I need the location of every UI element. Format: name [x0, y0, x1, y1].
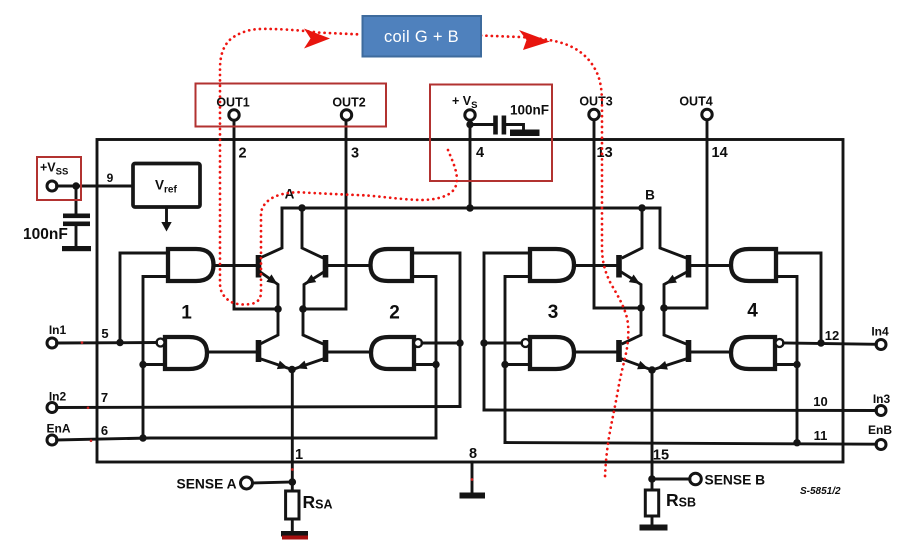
AND gate 1 upper	[168, 249, 214, 281]
wire gate4 upper top input to In4	[776, 253, 821, 343]
inverting bubble gate 4 lower	[776, 339, 784, 347]
transistor Q1 upper-left bridge A	[214, 255, 279, 309]
node output right bridge B	[660, 304, 668, 312]
svg-text:15: 15	[653, 448, 669, 464]
svg-text:SENSE B: SENSE B	[705, 473, 766, 488]
wire gate1 inputs to EnA	[143, 277, 168, 439]
svg-text:1: 1	[295, 447, 303, 463]
svg-text:OUT3: OUT3	[579, 95, 612, 109]
node +VS rail junction	[466, 204, 474, 212]
node In3 branch	[480, 339, 487, 346]
wire gate2 lower bottom input	[414, 363, 436, 366]
pin OUT1 circle	[216, 96, 249, 121]
red highlight box OUT1 OUT2	[196, 84, 387, 127]
wire gate2 bubble to In2	[422, 342, 460, 345]
node EnA bus tap	[139, 434, 146, 441]
AND gate 1 lower	[165, 337, 207, 369]
wire RSA to ground	[291, 519, 294, 532]
svg-text:5: 5	[101, 326, 108, 341]
node common emitter bridge A	[288, 366, 296, 374]
svg-text:In3: In3	[873, 392, 891, 406]
wire gate4 inputs to EnB	[776, 277, 797, 443]
svg-text:SENSE A: SENSE A	[177, 477, 237, 492]
node output right bridge A	[299, 305, 307, 313]
node +VSS cap tap	[72, 182, 79, 189]
AND gate 2 lower	[371, 337, 414, 369]
svg-text:6: 6	[101, 423, 108, 438]
wire +VSS to Vref block	[57, 185, 133, 188]
svg-text:3: 3	[351, 146, 359, 162]
pin OUT3 circle	[579, 95, 612, 120]
supply rail wire	[282, 207, 660, 210]
svg-text:3: 3	[548, 302, 559, 323]
pin +VS circle	[452, 94, 477, 120]
node EnA branch gate2	[432, 361, 439, 368]
svg-text:In4: In4	[871, 325, 889, 339]
svg-text:100nF: 100nF	[510, 103, 549, 118]
inverting bubble gate 3 lower	[522, 339, 530, 347]
wire OUT1 pin to output node	[234, 121, 278, 309]
ground pin 8	[460, 493, 486, 499]
wire gate3 upper top input to In3	[484, 253, 530, 410]
wire gate2 upper top input to In2	[412, 253, 460, 407]
wire gate3 inputs to EnB	[505, 277, 530, 443]
transistor Q6 upper-right bridge B	[664, 255, 731, 308]
svg-text:A: A	[285, 187, 295, 202]
node In2 branch	[456, 339, 463, 346]
node In4 tap	[817, 339, 824, 346]
svg-text:8: 8	[469, 446, 477, 462]
svg-text:100nF: 100nF	[23, 226, 68, 243]
transistor Q7 lower-left bridge B	[574, 308, 652, 370]
AND gate 4 lower	[731, 337, 775, 369]
svg-text:10: 10	[813, 394, 827, 409]
svg-text:1: 1	[181, 303, 192, 324]
node EnB bus tap gate4	[793, 439, 800, 446]
wire +VS pin down to supply rail	[469, 120, 472, 208]
pin EnA circle	[47, 422, 71, 446]
wire gate3 lower bottom input	[505, 363, 530, 366]
wire sense column pin 1	[291, 370, 294, 492]
red highlight box +VSS	[37, 157, 81, 200]
svg-text:12: 12	[825, 328, 839, 343]
AND gate 3 lower	[530, 337, 574, 369]
node EnA branch gate1	[139, 361, 146, 368]
pin In4 circle	[871, 325, 889, 350]
arrow below Vref	[161, 207, 171, 232]
transistor Q5 upper-left bridge B	[574, 255, 641, 308]
pin In1 circle	[47, 323, 66, 348]
svg-text:9: 9	[107, 171, 114, 185]
voltage reference block Vref	[133, 164, 200, 208]
pin OUT4 circle	[679, 95, 712, 120]
svg-text:S-5851/2: S-5851/2	[800, 486, 841, 497]
capacitor 100nF at +VSS	[23, 186, 90, 247]
svg-text:13: 13	[597, 145, 613, 161]
red dotted coil path right	[481, 36, 628, 478]
svg-text:coil G + B: coil G + B	[384, 28, 459, 46]
transistor Q2 upper-right bridge A	[304, 255, 371, 309]
wire bridge B collector stem	[623, 208, 642, 258]
wire gate2 inputs to EnA	[412, 277, 436, 439]
wire bridge A collector stem	[261, 208, 282, 258]
red highlight box +VS	[430, 85, 552, 182]
wire gate1 upper top input to In1	[120, 253, 168, 343]
resistor RSA	[286, 491, 333, 519]
wire EnA bus	[57, 438, 436, 440]
inverting bubble gate 2 lower	[414, 339, 422, 347]
resistor RSB	[645, 490, 696, 516]
node B junction	[638, 204, 646, 212]
node output left bridge B	[637, 304, 645, 312]
red arrow 1	[304, 29, 330, 49]
pin SENSE B circle	[690, 473, 765, 488]
AND gate 4 upper	[731, 249, 776, 281]
transistor Q3 lower-left bridge A	[207, 309, 292, 370]
node sense B junction	[648, 475, 656, 483]
inverting bubble gate 1 lower	[157, 339, 165, 347]
svg-text:4: 4	[747, 301, 758, 322]
ground at +VSS cap	[62, 246, 91, 251]
pin In3 circle	[873, 392, 891, 416]
svg-text:In1: In1	[49, 323, 67, 337]
svg-text:11: 11	[814, 428, 828, 443]
node EnB branch gate3	[501, 361, 508, 368]
svg-text:EnA: EnA	[47, 422, 71, 436]
wire In3 bus	[484, 409, 876, 412]
wire RSB to ground	[651, 516, 654, 525]
red dotted coil path left	[220, 29, 457, 305]
pin 8 ground stem	[471, 462, 474, 493]
svg-text:OUT4: OUT4	[679, 95, 712, 109]
pin In2 circle	[47, 390, 66, 413]
svg-text:7: 7	[101, 390, 108, 405]
svg-text:2: 2	[389, 303, 400, 324]
wire In1 bus	[57, 341, 157, 344]
wire OUT3 pin to output node	[594, 120, 641, 308]
node In1 tap	[116, 339, 123, 346]
pin OUT2 circle	[332, 96, 365, 121]
wire EnB bus	[505, 443, 876, 445]
transistor Q4 lower-right bridge A	[293, 309, 372, 370]
svg-text:4: 4	[476, 145, 484, 161]
node sense A junction	[289, 478, 297, 486]
ground RSA	[281, 531, 308, 540]
pin SENSE A circle	[177, 477, 253, 492]
AND gate 3 upper	[530, 249, 574, 281]
IC outline box	[97, 140, 843, 463]
node EnB branch gate4	[793, 361, 800, 368]
wire gate3 bubble to In3	[484, 342, 522, 345]
scan speck red dots	[81, 341, 474, 481]
node output left bridge A	[274, 305, 282, 313]
wire OUT4 pin to output node	[664, 120, 707, 308]
wire In2 bus	[57, 407, 460, 408]
svg-text:B: B	[645, 188, 655, 203]
capacitor 100nF at +VS	[470, 103, 549, 137]
wire In4 bus	[784, 343, 877, 344]
node A junction	[298, 204, 306, 212]
wire OUT2 pin to output node	[303, 121, 346, 309]
svg-text:OUT2: OUT2	[332, 96, 365, 110]
node common emitter bridge B	[648, 366, 656, 374]
svg-text:EnB: EnB	[868, 423, 892, 437]
pin EnB circle	[868, 423, 892, 450]
pin +VSS circle	[40, 161, 68, 192]
wire sense column pin 15	[651, 370, 654, 490]
wire gate1 lower bottom input	[143, 363, 165, 366]
ground RSB	[640, 525, 668, 531]
transistor Q8 lower-right bridge B	[652, 308, 731, 370]
AND gate 2 upper	[371, 249, 413, 281]
wire SENSE A	[253, 482, 293, 483]
red arrow 2	[519, 30, 550, 50]
svg-text:In2: In2	[49, 390, 67, 404]
svg-text:14: 14	[712, 145, 728, 161]
node +VS cap tap	[466, 121, 473, 128]
blue label box coil G + B	[363, 16, 482, 57]
svg-text:2: 2	[239, 146, 247, 162]
wire SENSE B	[652, 478, 690, 481]
wire gate4 lower bottom input	[775, 363, 797, 366]
